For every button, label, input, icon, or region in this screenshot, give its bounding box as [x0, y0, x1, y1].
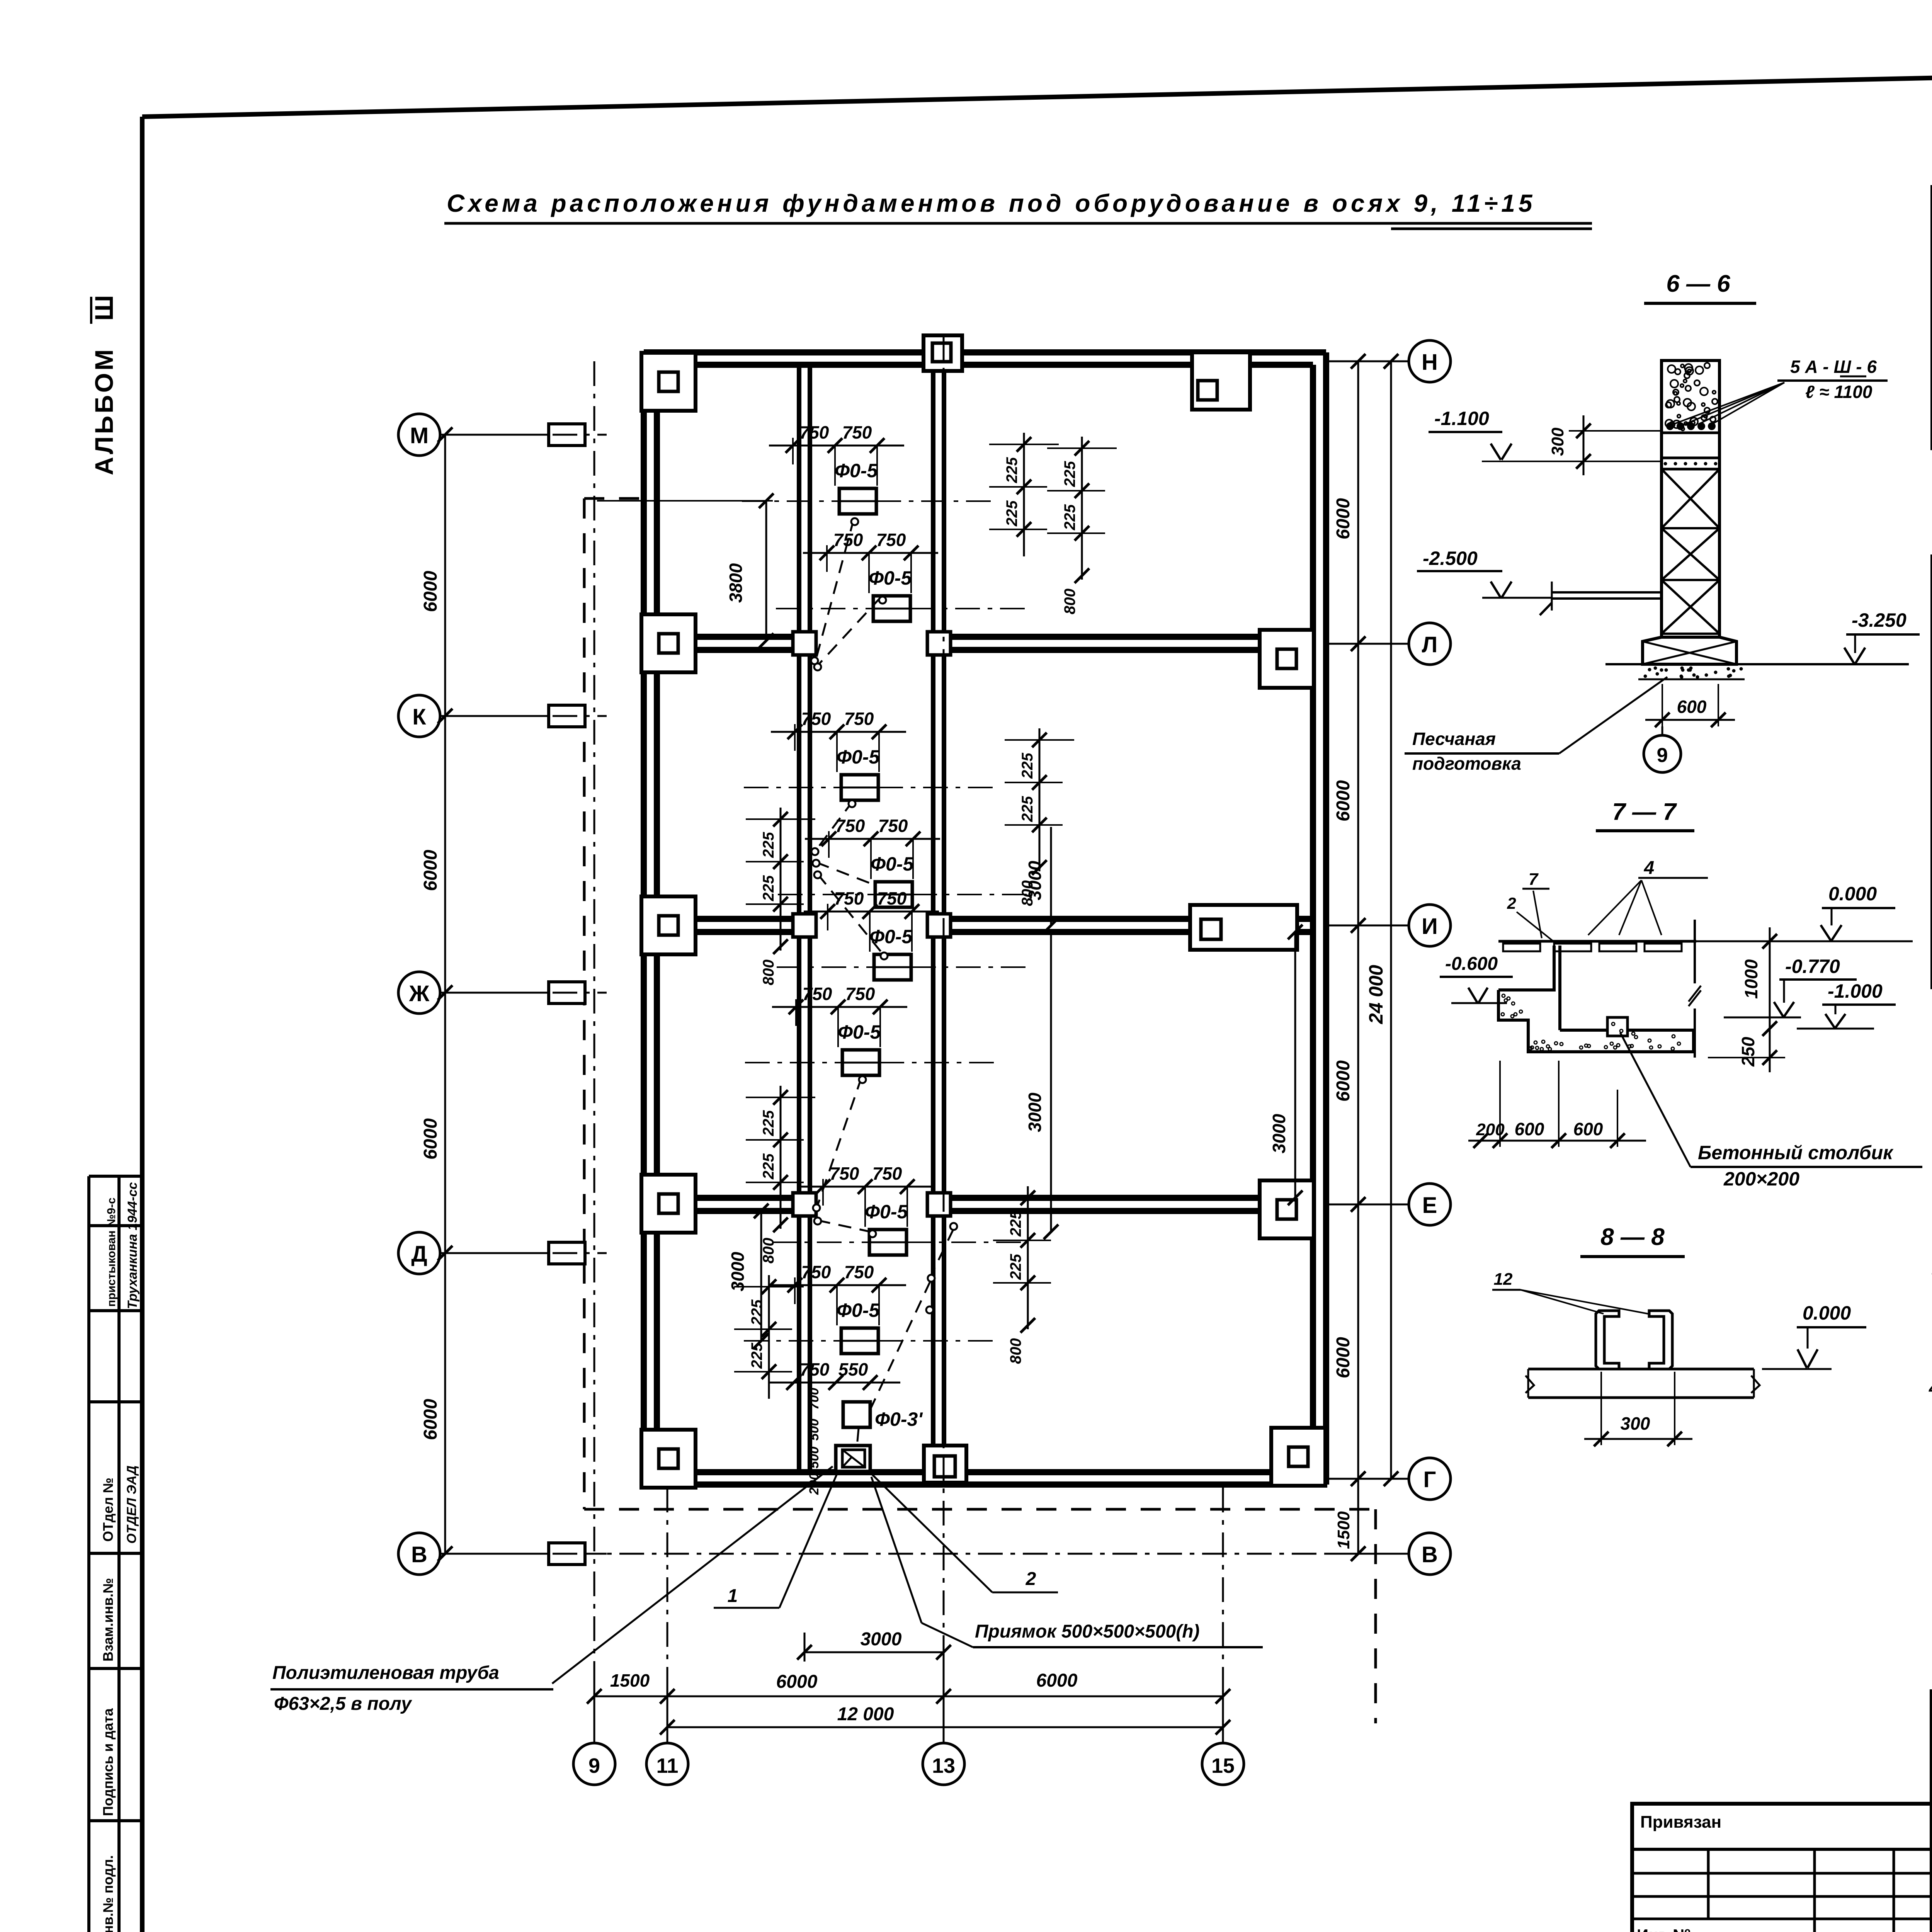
axis 11 vertical line: [667, 1488, 668, 1741]
specification table 1: [1930, 185, 1932, 450]
svg-text:6000: 6000: [1333, 780, 1354, 821]
svg-text:5 А - Ш - 6: 5 А - Ш - 6: [1790, 357, 1877, 377]
svg-text:750: 750: [844, 709, 874, 729]
svg-text:-3.250: -3.250: [1852, 609, 1906, 631]
svg-text:750: 750: [845, 984, 875, 1004]
svg-text:800: 800: [760, 1238, 777, 1264]
svg-text:500: 500: [807, 1447, 821, 1469]
svg-text:600: 600: [1515, 1119, 1544, 1139]
vertical dim 3000 right room E lower: [1294, 932, 1296, 1198]
bottom dimension line 1500 6000 6000: [594, 1696, 1223, 1697]
section 7-7 pit outline: [1498, 946, 1554, 990]
svg-text:7 — 7: 7 — 7: [1612, 799, 1677, 825]
column pad bottom-left corner: [641, 1430, 696, 1488]
building bottom wall: [644, 1481, 1326, 1488]
svg-text:Ф63×2,5 в полу: Ф63×2,5 в полу: [274, 1694, 412, 1714]
interior wall W1: [797, 365, 801, 1472]
svg-text:750: 750: [876, 530, 906, 550]
block F dim 750 750: [772, 1006, 907, 1008]
building left outer wall: [641, 352, 647, 1485]
row E interior wall: [657, 1195, 799, 1201]
junction squares interior walls: [793, 632, 816, 655]
axis circle 13 bottom: [923, 1743, 964, 1785]
dim group 225 right of W2 row E: [1027, 1186, 1029, 1310]
block H dim 750 750: [771, 1284, 906, 1286]
svg-text:600: 600: [1573, 1119, 1603, 1139]
pipe junction circles: [851, 518, 858, 525]
svg-text:3000: 3000: [861, 1629, 902, 1650]
svg-text:Привязан: Привязан: [1640, 1813, 1721, 1832]
svg-text:750: 750: [872, 1163, 902, 1184]
interior middle wall axis 13: [931, 365, 935, 1472]
column pad top axis 15: [1192, 352, 1250, 410]
block E axis dash-dot: [777, 966, 1032, 968]
column pad row E left: [641, 1175, 696, 1233]
svg-text:4. При устройстве бетонной п: 4. При устройстве бетонной подготовки по…: [1929, 1378, 1932, 1398]
title block outer: [1930, 1689, 1932, 1932]
svg-text:700: 700: [807, 1388, 821, 1410]
block D axis dash-dot: [778, 894, 1033, 895]
privyazan block outer: [1632, 1804, 1932, 1932]
svg-text:6 — 6: 6 — 6: [1666, 270, 1730, 297]
block E dim 750 750: [804, 911, 939, 913]
svg-text:Взам.инв.№: Взам.инв.№: [100, 1578, 116, 1662]
vertical dim 3000 right room I: [1050, 827, 1052, 925]
left dimension line: [444, 435, 446, 1554]
svg-text:1: 1: [728, 1586, 738, 1606]
svg-text:800: 800: [1007, 1338, 1024, 1364]
svg-text:Ф0-3': Ф0-3': [875, 1408, 923, 1430]
dim group 225 right of block A: [1023, 433, 1025, 556]
block D dim 750 750: [805, 838, 940, 840]
section 6-6 axis circle 9: [1644, 735, 1681, 772]
svg-text:Д: Д: [411, 1242, 427, 1267]
row L interior wall: [657, 634, 799, 640]
svg-text:6000: 6000: [776, 1672, 818, 1692]
section 7-7 right edge with break: [1694, 920, 1696, 983]
svg-text:Бетонный столбик: Бетонный столбик: [1698, 1142, 1894, 1163]
svg-text:300: 300: [1621, 1413, 1650, 1434]
svg-text:Труханкина 1944-сс: Труханкина 1944-сс: [125, 1182, 140, 1309]
svg-text:225: 225: [1061, 504, 1078, 531]
svg-text:-2.500: -2.500: [1423, 548, 1478, 569]
svg-text:225: 225: [748, 1343, 765, 1369]
svg-text:Приямок 500×500×500(h): Приямок 500×500×500(h): [975, 1621, 1200, 1642]
svg-text:подготовка: подготовка: [1412, 753, 1521, 774]
svg-text:В: В: [411, 1542, 427, 1567]
section 6-6 concrete stipple: [1675, 369, 1680, 374]
svg-text:800: 800: [1019, 880, 1036, 906]
svg-text:Полиэтиленовая труба: Полиэтиленовая труба: [272, 1663, 499, 1683]
column pad top-left corner: [641, 353, 696, 411]
axis 9 vertical line: [594, 361, 595, 1741]
svg-text:13: 13: [932, 1754, 955, 1777]
svg-text:ОТдел №: ОТдел №: [100, 1478, 116, 1542]
building top wall: [644, 349, 1326, 355]
section 7-7 floor plates: [1503, 944, 1540, 951]
svg-text:-1.100: -1.100: [1434, 408, 1489, 429]
svg-text:3000: 3000: [1025, 1092, 1045, 1132]
privyazan grid: [1632, 1848, 1932, 1851]
svg-text:Подпись и дата: Подпись и дата: [100, 1708, 116, 1816]
svg-text:550: 550: [838, 1359, 868, 1379]
row I interior wall: [657, 916, 799, 922]
block C axis dash-dot: [744, 787, 999, 788]
priamok pit plan: [836, 1446, 870, 1471]
svg-text:7: 7: [1529, 870, 1539, 889]
svg-text:В: В: [1422, 1542, 1438, 1567]
axis circle Л right: [1409, 623, 1451, 665]
axis circle Д left: [398, 1232, 440, 1274]
svg-text:ℓ ≈ 1100: ℓ ≈ 1100: [1805, 382, 1872, 402]
section 6-6 band lines: [1662, 432, 1719, 434]
svg-text:9: 9: [588, 1754, 600, 1777]
svg-text:Н: Н: [1422, 350, 1438, 375]
svg-text:Л: Л: [1422, 632, 1438, 657]
axis circle Н right: [1409, 340, 1451, 382]
section 7-7 concrete post: [1607, 1017, 1628, 1036]
block A dim 750 750: [769, 445, 904, 447]
svg-text:6000: 6000: [420, 571, 441, 612]
svg-text:0.000: 0.000: [1828, 883, 1877, 905]
section 6-6 footing: [1643, 637, 1736, 664]
pipe dashed route: [816, 519, 854, 659]
dim group 225 left row D: [768, 1275, 770, 1399]
axis circle В left: [398, 1533, 440, 1575]
svg-text:750: 750: [801, 1262, 831, 1282]
svg-text:6000: 6000: [1333, 1337, 1354, 1378]
section 6-6 dim 600: [1662, 684, 1663, 726]
block B axis dash-dot: [776, 608, 1031, 609]
block C dim 750 750: [771, 731, 906, 733]
svg-text:3800: 3800: [726, 563, 746, 603]
svg-text:пристыкован №9-с: пристыкован №9-с: [105, 1197, 118, 1307]
foundation block ФО-5 D: [875, 882, 912, 907]
svg-text:-0.600: -0.600: [1445, 954, 1498, 974]
svg-text:225: 225: [760, 875, 777, 901]
svg-text:12: 12: [1494, 1270, 1513, 1289]
foundation block ФО-5 A: [839, 488, 876, 514]
svg-text:Ф0-5: Ф0-5: [871, 853, 914, 875]
section 6-6 ground line: [1605, 663, 1909, 665]
svg-text:4: 4: [1644, 858, 1655, 878]
svg-text:2: 2: [1026, 1569, 1036, 1589]
leader priamok label: [922, 1623, 973, 1647]
dashed outline top stub: [584, 497, 644, 500]
svg-text:К: К: [412, 704, 426, 730]
svg-text:11: 11: [656, 1754, 678, 1777]
right dimension line 24000: [1390, 361, 1392, 1479]
dim group 225 left of W1 row I: [780, 808, 782, 931]
svg-text:6000: 6000: [1333, 1060, 1354, 1102]
specification table 2: [1930, 554, 1932, 989]
svg-text:6000: 6000: [420, 850, 441, 891]
svg-text:М: М: [410, 423, 429, 448]
axis circle 9 bottom: [573, 1743, 615, 1785]
axis circle В right: [1409, 1533, 1451, 1575]
dashed outline left: [583, 498, 586, 1509]
column pad bottom-right corner: [1271, 1428, 1325, 1486]
svg-text:3000: 3000: [728, 1252, 748, 1291]
svg-text:225: 225: [760, 832, 777, 858]
right dimension line 6000s: [1357, 361, 1359, 1554]
foundation block ФО-3 prime: [843, 1402, 870, 1427]
block A axis dash-dot: [742, 500, 997, 502]
left stamp column boxes: [87, 1176, 90, 1932]
svg-text:225: 225: [1007, 1211, 1024, 1237]
svg-text:-1.000: -1.000: [1828, 980, 1883, 1002]
vertical dim 3800 room: [765, 501, 767, 641]
svg-text:12 000: 12 000: [837, 1704, 894, 1725]
svg-text:9: 9: [1657, 744, 1668, 767]
svg-text:15: 15: [1211, 1754, 1235, 1777]
section 7-7 concrete stipple: [1630, 1044, 1633, 1048]
section 6-6 column outline: [1662, 361, 1719, 637]
svg-text:800: 800: [760, 959, 777, 985]
svg-text:Ш: Ш: [90, 295, 118, 321]
svg-text:750: 750: [877, 888, 907, 908]
svg-text:225: 225: [1061, 461, 1078, 487]
axis circle Ж left: [398, 972, 440, 1014]
svg-text:24 000: 24 000: [1365, 965, 1387, 1024]
svg-text:Ж: Ж: [409, 981, 430, 1006]
svg-text:Ф0-5: Ф0-5: [865, 1201, 908, 1223]
section 6-6 rebar dots: [1667, 423, 1673, 429]
svg-text:6000: 6000: [1333, 498, 1354, 539]
svg-text:750: 750: [800, 1359, 830, 1379]
svg-text:Ф0-5: Ф0-5: [838, 1021, 881, 1043]
svg-text:500: 500: [807, 1419, 821, 1441]
svg-text:1500: 1500: [1334, 1511, 1353, 1549]
bottom dimension line 12000: [667, 1726, 1223, 1728]
svg-text:225: 225: [748, 1299, 765, 1326]
sheet frame left border: [140, 117, 145, 1932]
svg-text:225: 225: [760, 1153, 777, 1180]
axis circle М left: [398, 414, 440, 456]
svg-text:200×200: 200×200: [1723, 1168, 1799, 1190]
svg-text:Ф0-5: Ф0-5: [835, 460, 878, 481]
svg-text:Ф0-5: Ф0-5: [869, 567, 912, 589]
section 6-6 sand layer: [1656, 673, 1658, 675]
axis 15 vertical line: [1222, 1488, 1224, 1741]
building right outer wall: [1323, 352, 1329, 1485]
svg-text:750: 750: [801, 709, 831, 729]
svg-text:6000: 6000: [1036, 1670, 1078, 1691]
dim group 225 left of W1 row E: [780, 1086, 782, 1209]
section 6-6 embedded bar: [1552, 591, 1662, 594]
foundation block ФО-5 E: [874, 954, 911, 980]
column pad row E right: [1260, 1180, 1314, 1238]
svg-text:750: 750: [842, 422, 872, 442]
column pad row L left: [641, 614, 696, 672]
leader poly tube line: [552, 1466, 833, 1684]
svg-text:Песчаная: Песчаная: [1412, 729, 1496, 749]
svg-text:225: 225: [1007, 1254, 1024, 1280]
svg-text:600: 600: [1677, 697, 1707, 717]
section 8-8 slab: [1528, 1368, 1754, 1371]
svg-text:750: 750: [878, 816, 908, 836]
svg-text:Инв.№ подл.: Инв.№ подл.: [100, 1855, 116, 1932]
svg-text:И: И: [1422, 914, 1438, 939]
axis circle И right: [1409, 905, 1451, 946]
svg-text:300: 300: [1548, 427, 1567, 456]
axis circle Е right: [1409, 1184, 1451, 1225]
axis circle К left: [398, 695, 440, 737]
sheet frame top border: [142, 60, 1932, 117]
left stub rectangles: [549, 424, 585, 446]
axis circle 11 bottom: [646, 1743, 688, 1785]
block G axis dash-dot: [772, 1242, 1027, 1243]
svg-text:750: 750: [799, 422, 829, 442]
column pad row I right: [1190, 905, 1297, 950]
svg-text:АЛЬБОМ: АЛЬБОМ: [90, 347, 118, 475]
vertical dim 3000 right of W2 below I: [1050, 932, 1052, 1232]
svg-text:Ф0-5: Ф0-5: [837, 746, 880, 768]
vertical dim 3000 left room lower: [760, 1211, 762, 1341]
svg-text:800: 800: [1061, 588, 1078, 614]
column pad row I left: [641, 896, 696, 954]
svg-text:2: 2: [1507, 894, 1516, 912]
svg-text:225: 225: [760, 1110, 777, 1136]
svg-text:250: 250: [1738, 1037, 1758, 1067]
block G dim 750 750: [799, 1186, 934, 1188]
section 6-6 rebar fan leaders: [1673, 383, 1784, 424]
foundation block ФО-5 C: [841, 775, 878, 800]
column pad top axis 13: [923, 335, 962, 371]
dashed outline right stub: [1374, 1509, 1377, 1723]
block ФО-3 dim 750 550: [769, 1382, 900, 1384]
svg-text:1000: 1000: [1741, 959, 1761, 999]
svg-text:750: 750: [830, 1163, 859, 1184]
dim group 225 right of W2 row I: [1039, 728, 1041, 852]
svg-text:Ф0-5: Ф0-5: [837, 1299, 880, 1321]
svg-text:ОТДЕЛ ЭАД: ОТДЕЛ ЭАД: [124, 1466, 139, 1544]
svg-text:225: 225: [1003, 500, 1020, 527]
svg-text:225: 225: [1019, 796, 1036, 822]
axis B horizontal dash-dot line: [440, 1553, 1409, 1555]
svg-text:1500: 1500: [610, 1670, 650, 1690]
block H axis dash-dot: [744, 1340, 999, 1342]
axis 13 vertical line: [943, 335, 945, 1741]
svg-text:6000: 6000: [420, 1399, 441, 1440]
dashed outline bottom: [584, 1508, 1376, 1511]
svg-text:Г: Г: [1423, 1467, 1436, 1492]
svg-text:Е: Е: [1422, 1193, 1437, 1218]
foundation block ФО-5 B: [873, 596, 910, 621]
foundation block ФО-5 G: [869, 1230, 906, 1255]
bottom dimension 3000 pit: [804, 1651, 944, 1653]
svg-text:225: 225: [1003, 457, 1020, 483]
dim group 225 row L right: [1081, 437, 1083, 560]
section 8-8 channel profiles: [1596, 1311, 1619, 1369]
svg-text:6000: 6000: [420, 1118, 441, 1160]
section 7-7 floor line: [1498, 940, 1696, 943]
foundation block ФО-5 H: [841, 1328, 878, 1354]
column pad bottom axis 13: [924, 1446, 966, 1483]
svg-text:0.000: 0.000: [1803, 1302, 1851, 1324]
svg-text:750: 750: [844, 1262, 874, 1282]
svg-text:8 — 8: 8 — 8: [1600, 1224, 1665, 1250]
svg-text:Инв.Nº: Инв.Nº: [1637, 1926, 1690, 1932]
svg-text:Схема расположения фундамент: Схема расположения фундаментов под обору…: [447, 189, 1536, 217]
svg-text:750: 750: [803, 984, 832, 1004]
svg-text:-0.770: -0.770: [1785, 956, 1840, 977]
axis circle Г right: [1409, 1458, 1451, 1500]
block F axis dash-dot: [745, 1062, 1000, 1063]
svg-text:3000: 3000: [1269, 1114, 1289, 1153]
axis circle 15 bottom: [1202, 1743, 1244, 1785]
block B dim 750 750: [803, 552, 938, 554]
section 6-6 cross braces: [1662, 469, 1719, 528]
svg-text:225: 225: [1019, 753, 1036, 779]
foundation block ФО-5 F: [842, 1050, 879, 1075]
column pad row L right: [1260, 630, 1314, 688]
